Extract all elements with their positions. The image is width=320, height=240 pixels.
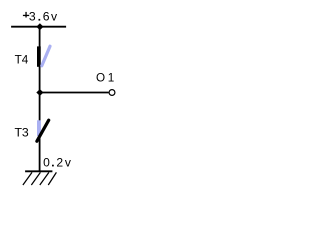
svg-text:4: 4 (22, 54, 29, 67)
svg-text:3: 3 (29, 10, 36, 24)
svg-text:3: 3 (22, 126, 29, 140)
svg-text:1: 1 (108, 72, 115, 85)
svg-text:O: O (96, 72, 105, 85)
svg-text:2: 2 (56, 155, 63, 169)
svg-text:0: 0 (43, 155, 50, 169)
svg-text:v: v (65, 155, 71, 169)
svg-text:6: 6 (43, 10, 50, 24)
svg-text:v: v (51, 10, 58, 24)
svg-text:T: T (15, 54, 22, 67)
